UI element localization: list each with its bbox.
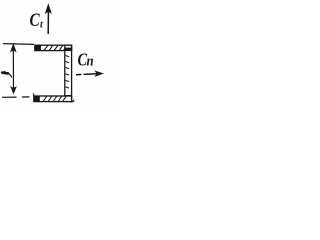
svg-text:C: C bbox=[30, 9, 41, 30]
top extension line bbox=[3, 43, 34, 46]
channel right web (hatched bar) bbox=[65, 45, 72, 101]
arrow Cn (rightward force arrow) bbox=[76, 71, 103, 76]
svg-text:t: t bbox=[40, 20, 44, 31]
channel bottom flange (hatched bar) bbox=[34, 96, 74, 102]
dimension line (vertical, double arrow) bbox=[11, 44, 17, 93]
bottom extension line (broken, hand-drawn) bbox=[2, 96, 17, 98]
svg-text:п: п bbox=[87, 54, 94, 70]
dark fill at top-right corner joint bbox=[65, 48, 71, 51]
bottom flange left tip overshoot bbox=[32, 94, 35, 96]
channel top flange (hatched bar) bbox=[35, 45, 72, 50]
arrow Ct (upward force arrow) bbox=[46, 5, 52, 35]
leader hook at dimension line bbox=[2, 71, 8, 74]
dark fill at bottom-right corner joint bbox=[65, 95, 71, 102]
